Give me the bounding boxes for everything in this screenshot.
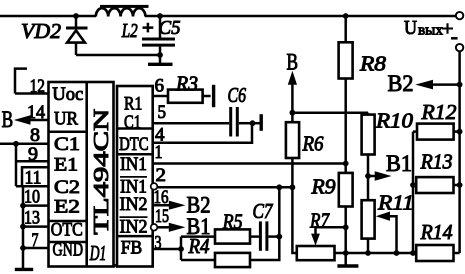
pin 10 E2 bbox=[23, 187, 49, 208]
wire across to R10 bbox=[292, 111, 368, 114]
svg-text:12: 12 bbox=[30, 76, 45, 97]
arrow to node B (pin 14) bbox=[14, 115, 31, 125]
pin 15 IN2bar bbox=[155, 206, 170, 227]
svg-text:C1: C1 bbox=[124, 112, 141, 133]
svg-text:B: B bbox=[287, 50, 299, 75]
svg-text:DTC: DTC bbox=[119, 134, 148, 155]
wire to R4 bbox=[181, 259, 215, 262]
potentiometer R7 bbox=[297, 209, 335, 261]
node: R9 / R7 wiper junction bbox=[343, 224, 349, 230]
op-amp IC D1 TL494CN body bbox=[49, 82, 153, 267]
wire left bus lower bbox=[16, 186, 23, 268]
wire top rail right bbox=[145, 15, 456, 18]
node: C7 / R4 riser junction bbox=[276, 234, 282, 240]
pin 7 GND bbox=[23, 230, 49, 251]
wire from B arrow down bbox=[291, 84, 294, 113]
resistor R9 bbox=[310, 164, 352, 254]
node: R13 / left riser junction bbox=[410, 182, 416, 188]
wire riser from pin2 net down to R4 bbox=[250, 187, 279, 260]
svg-text:C7: C7 bbox=[253, 199, 274, 223]
ground bottom middle bbox=[337, 253, 358, 266]
node: right rail / B2 junction bbox=[457, 82, 463, 88]
svg-text:R9: R9 bbox=[310, 175, 336, 199]
svg-text:B1: B1 bbox=[386, 151, 412, 176]
pin 14 UR bbox=[27, 102, 49, 123]
node: B / R6 / R10 wire junction bbox=[290, 110, 296, 116]
wire R7 wiper bbox=[316, 227, 346, 234]
wire right rail down from minus terminal bbox=[458, 51, 461, 253]
pin 11 C2 bbox=[16, 167, 49, 188]
overline IN1 pin2 bbox=[120, 176, 147, 178]
pin 9 E1 bbox=[16, 144, 49, 165]
wire top rail left bbox=[0, 15, 96, 18]
svg-text:9: 9 bbox=[28, 144, 38, 165]
wire bottom bus bbox=[335, 252, 417, 255]
node: top rail / R8 junction bbox=[343, 13, 349, 19]
svg-text:2: 2 bbox=[156, 165, 167, 186]
svg-text:16: 16 bbox=[154, 187, 169, 208]
node: C5 bottom / VD2 wire junction bbox=[157, 52, 163, 58]
svg-text:VD2: VD2 bbox=[21, 19, 62, 43]
wire FB branch bracket bbox=[180, 237, 183, 260]
resistor R8 bbox=[339, 16, 387, 164]
wire to R5 bbox=[181, 235, 215, 238]
svg-text:R4: R4 bbox=[188, 234, 210, 258]
resistor R10 bbox=[362, 109, 414, 201]
resistor R4 bbox=[188, 234, 250, 267]
svg-text:15: 15 bbox=[155, 206, 169, 227]
arrow to B1 (pin 15) bbox=[169, 223, 186, 232]
node: bus / left riser / R14 junction bbox=[410, 250, 416, 256]
svg-text:R3: R3 bbox=[175, 72, 198, 96]
node: R6 wire / pin2 wire junction bbox=[290, 184, 296, 190]
node: R10-R11 / B1 junction bbox=[365, 173, 371, 179]
svg-text:E2: E2 bbox=[54, 196, 80, 217]
pin 15 inversion bubble bbox=[151, 224, 158, 231]
wire left riser R12-R13-R14 bbox=[412, 132, 415, 253]
svg-text:R12: R12 bbox=[420, 100, 457, 124]
diode VD2 bbox=[21, 16, 88, 55]
label Uvyh bbox=[404, 17, 454, 40]
svg-text:6: 6 bbox=[155, 76, 165, 97]
node: top rail / VD2 junction bbox=[73, 13, 79, 19]
svg-text:R13: R13 bbox=[420, 150, 453, 174]
svg-text:+: + bbox=[442, 18, 454, 40]
wire R11 wiper to bus bbox=[389, 216, 397, 253]
svg-text:C1: C1 bbox=[54, 134, 80, 155]
ground bar right of C6 bbox=[253, 114, 262, 131]
arrow R11 wiper bbox=[376, 212, 390, 221]
pin 4 DTC bbox=[153, 123, 252, 145]
pin 2 inversion bubble bbox=[151, 183, 158, 190]
svg-text:IN1: IN1 bbox=[120, 154, 147, 175]
svg-text:IN2: IN2 bbox=[120, 217, 148, 238]
svg-text:R10: R10 bbox=[375, 109, 414, 133]
potentiometer R11 bbox=[362, 191, 414, 254]
svg-text:R11: R11 bbox=[377, 191, 414, 215]
resistor R5 bbox=[215, 210, 250, 244]
node: bus / R11 wiper junction bbox=[394, 250, 400, 256]
ground bottom left bbox=[15, 268, 33, 271]
node: R12 / right rail junction bbox=[457, 129, 463, 135]
arrow to B1 right bbox=[368, 175, 376, 178]
arrow to B2 right bbox=[415, 80, 433, 90]
minus sign bbox=[451, 37, 458, 40]
svg-text:13: 13 bbox=[24, 208, 40, 229]
node: pin8 / bus junction bbox=[13, 141, 19, 147]
capacitor C7 bbox=[250, 199, 279, 251]
node: bus / R9 ground junction bbox=[343, 250, 349, 256]
resistor R14 bbox=[416, 220, 459, 261]
resistor R12 bbox=[413, 100, 460, 140]
svg-text:B: B bbox=[2, 107, 14, 132]
arrow up to node B bbox=[288, 71, 297, 85]
overline IN2 pin15 bbox=[120, 216, 148, 218]
terminal Uvyh - bbox=[456, 44, 463, 51]
pin 5 C1 bbox=[153, 102, 230, 123]
node: C6 / pin4 junction bbox=[250, 120, 256, 126]
svg-text:вых: вых bbox=[418, 23, 443, 39]
inductor L2 bbox=[96, 5, 149, 42]
svg-text:R8: R8 bbox=[359, 52, 387, 76]
pin 6 R1 bbox=[153, 76, 168, 97]
svg-text:5: 5 bbox=[158, 102, 167, 123]
svg-text:10: 10 bbox=[24, 187, 40, 208]
pin 2 IN1bar wire bbox=[156, 165, 293, 187]
svg-text:FB: FB bbox=[121, 237, 142, 258]
IC left column labels bbox=[51, 84, 84, 261]
svg-text:3: 3 bbox=[155, 233, 162, 254]
node: top rail / C5 junction bbox=[157, 13, 163, 19]
pin 16 IN2 bbox=[153, 187, 170, 208]
svg-text:OTC: OTC bbox=[51, 219, 83, 240]
resistor R13 bbox=[413, 150, 460, 194]
pin 1 IN1 wire to divider node bbox=[153, 142, 346, 164]
svg-text:7: 7 bbox=[32, 230, 39, 251]
svg-text:IN2: IN2 bbox=[120, 194, 148, 215]
ground below C5 bbox=[148, 55, 173, 64]
capacitor C6 bbox=[228, 83, 253, 137]
svg-text:R14: R14 bbox=[420, 220, 453, 244]
svg-text:R7: R7 bbox=[309, 209, 330, 233]
svg-text:B2: B2 bbox=[388, 71, 414, 96]
wire R6 bottom down to R7 left bbox=[292, 158, 296, 253]
svg-text:R5: R5 bbox=[222, 210, 243, 234]
wire to B2 arrow bbox=[431, 83, 460, 86]
svg-text:TL494CN: TL494CN bbox=[89, 109, 113, 235]
node: FB branch junction bbox=[178, 246, 184, 252]
arrow to B2 (pin 16) bbox=[169, 201, 186, 210]
svg-text:C5: C5 bbox=[159, 17, 181, 39]
wire VD2 bottom to C5 ground node bbox=[76, 54, 160, 57]
svg-text:Uoc: Uoc bbox=[52, 84, 83, 105]
resistor R6 bbox=[286, 113, 324, 158]
svg-text:L2: L2 bbox=[121, 20, 138, 42]
svg-text:U: U bbox=[404, 17, 417, 39]
svg-text:C2: C2 bbox=[54, 177, 80, 198]
terminal Uvyh + bbox=[456, 12, 463, 19]
node: pin1 wire / R8-R9 junction bbox=[343, 161, 349, 167]
svg-text:D1: D1 bbox=[89, 241, 106, 265]
pin 8 C1 bbox=[0, 125, 49, 146]
pin 3 FB bbox=[153, 233, 181, 254]
svg-text:C6: C6 bbox=[228, 83, 247, 107]
node: bus / R11 junction bbox=[365, 250, 371, 256]
node: riser / pin2 wire junction bbox=[276, 184, 282, 190]
resistor R3 bbox=[168, 72, 211, 103]
svg-text:8: 8 bbox=[30, 125, 40, 146]
ground bar right of R3 bbox=[212, 85, 215, 107]
svg-text:E1: E1 bbox=[54, 155, 78, 176]
pin 13 OTC bbox=[23, 208, 49, 229]
wire left bus upper bbox=[15, 144, 18, 186]
svg-text:R6: R6 bbox=[302, 132, 324, 156]
svg-text:1: 1 bbox=[155, 142, 163, 163]
svg-text:11: 11 bbox=[25, 168, 42, 189]
capacitor C5 (polarized) bbox=[142, 16, 181, 57]
IC right column labels bbox=[119, 94, 148, 259]
svg-text:GND: GND bbox=[53, 240, 84, 261]
pin 12 Uoc bbox=[15, 69, 49, 97]
svg-text:UR: UR bbox=[54, 109, 78, 130]
node: R13 / right rail junction bbox=[457, 182, 463, 188]
arrow down onto R7 bbox=[311, 234, 320, 246]
